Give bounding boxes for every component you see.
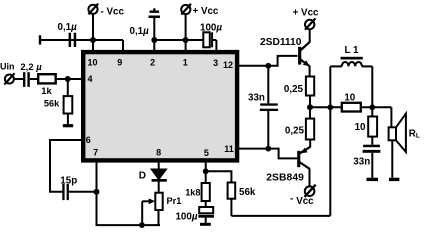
svg-text:Pr1: Pr1 (167, 196, 182, 206)
svg-text:4: 4 (87, 74, 92, 84)
svg-text:2SD1110: 2SD1110 (260, 37, 302, 48)
svg-text:33n: 33n (248, 93, 265, 104)
svg-text:2,2 µ: 2,2 µ (20, 62, 42, 73)
svg-text:10: 10 (355, 122, 366, 133)
svg-text:10: 10 (87, 58, 97, 68)
svg-text:L 1: L 1 (345, 45, 360, 56)
svg-text:- Vcc: - Vcc (101, 7, 125, 18)
svg-text:11: 11 (224, 144, 234, 154)
svg-text:1: 1 (183, 57, 188, 67)
svg-text:10: 10 (344, 92, 355, 103)
svg-text:2: 2 (150, 58, 155, 68)
svg-text:+ Vcc: + Vcc (193, 6, 219, 17)
svg-text:100µ: 100µ (175, 211, 197, 222)
svg-text:8: 8 (156, 147, 161, 157)
svg-text:0,1µ: 0,1µ (130, 26, 150, 37)
svg-text:0,25: 0,25 (285, 126, 305, 137)
svg-text:33n: 33n (353, 157, 370, 168)
svg-text:12: 12 (223, 60, 233, 70)
svg-text:+ Vcc: + Vcc (293, 7, 319, 18)
svg-text:15p: 15p (60, 175, 77, 186)
svg-text:0,25: 0,25 (284, 84, 304, 95)
svg-text:5: 5 (204, 148, 209, 158)
svg-text:56k: 56k (239, 187, 256, 198)
svg-text:Uin: Uin (0, 61, 15, 71)
svg-text:2SB849: 2SB849 (266, 173, 304, 184)
svg-text:100µ: 100µ (200, 23, 222, 34)
svg-text:7: 7 (93, 147, 98, 157)
svg-text:D: D (139, 170, 146, 181)
svg-text:6: 6 (86, 135, 91, 145)
svg-text:1k8: 1k8 (185, 187, 200, 197)
svg-text:9: 9 (117, 57, 122, 67)
svg-text:Vcc: Vcc (296, 196, 314, 207)
svg-text:0,1µ: 0,1µ (58, 22, 78, 33)
svg-text:-: - (290, 194, 293, 205)
svg-text:1k: 1k (41, 85, 52, 96)
svg-text:3: 3 (213, 58, 218, 68)
svg-text:56k: 56k (44, 98, 60, 108)
